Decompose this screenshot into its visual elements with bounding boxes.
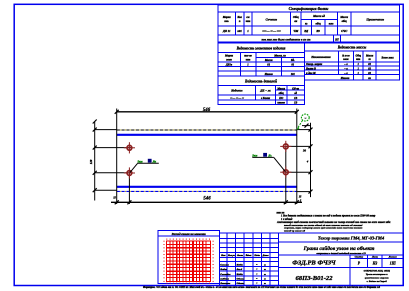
svg-text:Сжалов: Сжалов [220, 263, 229, 266]
svg-text:Дата: Дата [262, 254, 270, 257]
svg-text:Отпр. марки: Отпр. марки [306, 63, 323, 66]
svg-text:Подп: Подп [253, 254, 260, 257]
svg-text:Избёл: Избёл [236, 263, 244, 266]
bolt mark A1 top-left [124, 142, 135, 153]
svg-text:ЧМ: ЧМ [293, 29, 298, 33]
T2 element list grid [218, 43, 304, 76]
bolt mark B2 bottom-right [280, 167, 291, 178]
svg-text:Листов: Листов [388, 256, 398, 259]
svg-text:ДБ 11: ДБ 11 [222, 29, 231, 33]
svg-text:выбёлся: выбёлся [220, 278, 229, 281]
title block outer [220, 233, 404, 285]
svg-text:общ: общ [279, 92, 285, 95]
svg-text:Итого: Итого [340, 76, 350, 80]
weld callout right leader [274, 157, 286, 171]
svg-text:№док: №док [245, 254, 253, 257]
svg-text:Спецификация балки: Спецификация балки [289, 6, 329, 11]
svg-text:Ведомость деталей: Ведомость деталей [244, 78, 277, 83]
svg-text:Масса: Масса [339, 16, 348, 19]
svg-text:68ПЗ-В01-22: 68ПЗ-В01-22 [295, 275, 333, 282]
bolt mark A2 bottom-left [124, 167, 135, 178]
svg-text:и дал М: и дал М [306, 72, 316, 75]
T3 texts [305, 46, 395, 80]
weld callout left leader [130, 163, 138, 172]
svg-text:Масса: Масса [264, 59, 273, 62]
svg-text:№ п-го: № п-го [341, 55, 350, 58]
svg-text:элем: элем [225, 59, 232, 62]
weld callout right shelf [252, 156, 273, 158]
left dimension line [94, 122, 96, 201]
T4 texts [230, 78, 300, 104]
svg-text:1В: 1В [294, 102, 297, 105]
svg-text:поз.: поз. [224, 20, 229, 23]
svg-text:Изм: Изм [220, 254, 226, 257]
svg-text:Лаз.б: Лаз.б [236, 268, 243, 271]
svg-text:Лист: Лист [371, 256, 378, 259]
steel table box [158, 230, 220, 283]
svg-text:Балка В: Балка В [305, 67, 316, 70]
svg-text:Общ: Общ [293, 16, 299, 19]
svg-text:Обнавл: Обнавл [237, 278, 246, 281]
svg-text:‒ в: ‒ в [343, 63, 348, 66]
beam top hidden dashed line [117, 129, 297, 131]
svg-text:гг: гг [264, 263, 266, 266]
svg-text:ДБ1в: ДБ1в [225, 63, 233, 66]
svg-text:ПО: ПО [278, 97, 283, 100]
svg-text:Ведомость элементов изделия: Ведомость элементов изделия [236, 46, 286, 50]
svg-text:ВЗ: ВЗ [315, 29, 320, 33]
title block small labels [219, 254, 269, 285]
svg-text:гг: гг [264, 268, 266, 271]
svg-text:г Балка: г Балка [261, 97, 271, 100]
T4 details list grid [218, 76, 304, 104]
extension line right edge [296, 109, 298, 205]
svg-text:гг: гг [264, 282, 266, 285]
svg-text:Техсер торгмаш ГМ4, МГ-03-ГМ4: Техсер торгмаш ГМ4, МГ-03-ГМ4 [318, 236, 385, 241]
svg-text:Лк: Лк [152, 160, 157, 164]
svg-text:Формиров. / Оч вдоль от А. Ос: Формиров. / Оч вдоль от А. Ос. ОВП ис. М… [143, 286, 381, 289]
svg-text:1Ш: 1Ш [390, 262, 397, 266]
svg-text:Фабаз: Фабаз [220, 268, 227, 271]
svg-text:г. Видное т.Строй: г. Видное т.Строй [367, 280, 388, 283]
svg-text:1 Все детали соединяются с шва: 1 Все детали соединяются с швами по вид … [281, 215, 376, 218]
spec table T1 grid [218, 5, 400, 43]
svg-text:Стадия: Стадия [355, 256, 364, 259]
steel table red grid [167, 241, 211, 281]
svg-text:СЧС: СЧС [341, 29, 348, 33]
svg-text:Кол: Кол [236, 16, 242, 19]
svg-text:Всего масс: Всего масс [381, 56, 395, 59]
svg-text:кол-во: кол-во [244, 55, 252, 58]
organisation cell [364, 269, 390, 283]
beam top flange (blue) [117, 134, 297, 136]
svg-text:Избёл: Избёл [236, 273, 244, 276]
svg-text:Общ: Общ [356, 55, 362, 58]
T2 texts [224, 46, 295, 76]
svg-text:шт: шт [356, 58, 360, 61]
bolt mark B1 top-right [280, 141, 291, 152]
svg-text:‒ в: ‒ в [343, 67, 348, 70]
svg-text:Кол.уч: Кол.уч [227, 254, 236, 257]
steel table red dotted margins [164, 239, 214, 284]
node marker green circle [301, 114, 309, 121]
right dim tie lines [297, 129, 311, 131]
spec table T1 texts [222, 6, 385, 41]
svg-text:Расход стали на элемент: Расход стали на элемент [172, 232, 207, 236]
left dim tie lines [95, 129, 117, 131]
svg-text:Примечание: Примечание [365, 18, 384, 22]
svg-text:Сечение: Сечение [266, 18, 278, 22]
svg-text:кг: кг [368, 58, 370, 61]
svg-text:итого: итого [277, 102, 285, 105]
svg-text:Изделие: Изделие [230, 89, 243, 93]
svg-text:кг: кг [305, 23, 307, 26]
svg-text:Об-во: Об-во [292, 87, 300, 90]
svg-text:Масса, кг: Масса, кг [273, 54, 286, 57]
svg-text:━━ ‒‒ ━ ‒‒ ━━: ━━ ‒‒ ━ ‒‒ ━━ [262, 29, 281, 33]
beam bottom hidden dashed line [117, 190, 297, 192]
extension line right bolts [285, 146, 287, 204]
svg-text:546: 546 [203, 108, 211, 113]
svg-text:Марка: Марка [222, 16, 232, 19]
svg-text:Масса: Масса [276, 87, 285, 90]
svg-text:30: 30 [302, 149, 307, 153]
svg-text:гг: гг [264, 273, 266, 276]
weld callout left shelf [138, 162, 159, 164]
svg-text:Лист: Лист [236, 254, 243, 257]
svg-text:120: 120 [89, 159, 93, 164]
svg-text:гг: гг [264, 278, 266, 281]
svg-text:элем: элем [342, 58, 348, 61]
svg-text:5км: 5км [252, 154, 257, 158]
beam bottom flange (blue) [117, 186, 297, 188]
svg-text:Наименование: Наименование [310, 55, 331, 59]
svg-text:ВТ: ВТ [334, 37, 339, 41]
svg-text:Ед.: Ед. [290, 59, 295, 62]
svg-text:общ: общ [316, 23, 322, 26]
svg-text:Ведомость массы: Ведомость массы [337, 46, 367, 50]
stage cells [355, 256, 398, 259]
svg-text:см: см [246, 16, 249, 19]
svg-text:‒ в: ‒ в [343, 72, 348, 75]
svg-text:нов мая мог была соединение в: нов мая мог была соединение в сп ст [262, 37, 312, 41]
svg-text:общ: общ [342, 20, 348, 23]
svg-text:Ль: Ль [267, 154, 272, 158]
svg-text:Масса: Масса [365, 55, 374, 58]
svg-text:━ ‒‒ ━ ‒‒ ━: ━ ‒‒ ━ ‒‒ ━ [230, 97, 245, 100]
top dimension line [117, 111, 297, 113]
svg-text:НЗ: НЗ [372, 262, 378, 266]
svg-text:Обнавл: Обнавл [237, 282, 246, 285]
T3 mass list grid [304, 43, 399, 80]
extension line left edge [116, 109, 118, 205]
bottom dimension line [111, 201, 302, 203]
svg-text:1В: 1В [294, 97, 297, 100]
svg-text:Соломбов: Соломбов [220, 273, 231, 276]
svg-text:всег: всег [329, 23, 334, 26]
svg-text:чвковЗ чр отвлс нб: чвковЗ чр отвлс нб [284, 229, 306, 232]
svg-text:Марка: Марка [224, 55, 234, 58]
extension line left bolts [128, 173, 130, 204]
svg-text:к01: к01 [237, 29, 242, 33]
right dimension line [310, 123, 312, 197]
svg-text:Масса ед: Масса ед [312, 14, 325, 18]
svg-text:5км: 5км [138, 160, 143, 164]
svg-text:секционная о данной подобной п: секционная о данной подобной плоскости в… [316, 252, 366, 255]
svg-text:ДЕ ‒ лс: ДЕ ‒ лс [259, 89, 271, 93]
svg-text:Лаванова: Лаванова [219, 282, 231, 285]
node marker leader [297, 120, 303, 129]
svg-text:ФЗД.РВ ФЧЗЧ: ФЗД.РВ ФЧЗЧ [292, 259, 337, 266]
svg-text:546: 546 [203, 196, 211, 201]
